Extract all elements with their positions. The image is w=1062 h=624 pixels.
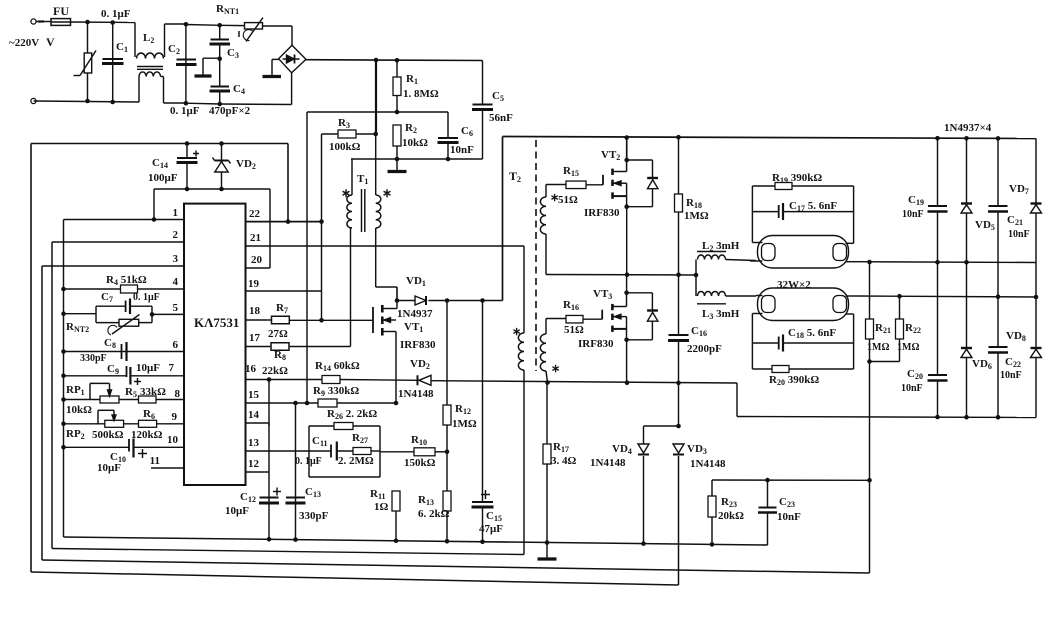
- lamp tube 1: [758, 236, 849, 269]
- pin 17: [246, 346, 272, 348]
- wire to pin1: [153, 189, 155, 220]
- resistor R1 1.8M: [396, 60, 398, 77]
- svg-text:21: 21: [250, 232, 261, 244]
- wire outer box left: [30, 144, 32, 573]
- pin 2: [52, 241, 184, 243]
- svg-text:18: 18: [249, 305, 261, 317]
- svg-text:27Ω: 27Ω: [268, 328, 288, 340]
- svg-text:IRF830: IRF830: [578, 338, 614, 350]
- svg-text:0. 1μF: 0. 1μF: [101, 8, 131, 20]
- svg-text:10: 10: [167, 434, 179, 446]
- left ground bus: [63, 220, 65, 538]
- wire C2 to RNT1 node: [186, 24, 220, 27]
- diode VT3 body diode: [627, 292, 653, 294]
- wire return drop: [736, 383, 738, 417]
- wire pin20 riser: [269, 189, 271, 268]
- svg-text:1MΩ: 1MΩ: [897, 342, 919, 353]
- wire T1 right winding bottom to VT1 drain: [375, 228, 377, 287]
- pin 18: [246, 319, 272, 321]
- svg-text:12: 12: [248, 458, 260, 470]
- svg-text:47μF: 47μF: [479, 523, 503, 535]
- inductor L3 3mH: [695, 275, 697, 296]
- svg-text:R26 2. 2kΩ: R26 2. 2kΩ: [327, 408, 377, 421]
- svg-text:1N4148: 1N4148: [690, 458, 726, 470]
- svg-text:6. 2kΩ: 6. 2kΩ: [418, 508, 450, 520]
- wire C13 riser: [295, 403, 297, 540]
- svg-text:IRF830: IRF830: [400, 339, 436, 351]
- capacitor C10 10uF: [128, 439, 130, 452]
- capacitor C1 0.1uF: [112, 23, 114, 103]
- svg-text:10nF: 10nF: [901, 383, 923, 394]
- ground midpoint C3 C4: [203, 57, 220, 59]
- resistor R8 22k: [271, 343, 289, 351]
- svg-text:V: V: [46, 35, 55, 49]
- resistor R19 390k loop: [751, 186, 753, 243]
- wire VD2 to return line: [431, 381, 737, 383]
- svg-text:10nF: 10nF: [450, 144, 474, 156]
- capacitor C7 0.1uF: [96, 305, 126, 307]
- wire outer box top: [31, 143, 288, 145]
- capacitor C9 10uF: [126, 366, 128, 377]
- svg-text:6: 6: [173, 339, 179, 351]
- node junction DC bus T1: [374, 58, 379, 63]
- svg-text:8: 8: [175, 388, 181, 400]
- diode VD4 1N4148: [643, 426, 645, 444]
- node junction lamp1 rail: [935, 260, 940, 265]
- zener diode VD2: [221, 144, 223, 161]
- capacitor C13 330pF: [286, 497, 305, 499]
- svg-text:2. 2MΩ: 2. 2MΩ: [338, 455, 374, 467]
- node junction VT3 drain: [624, 291, 629, 296]
- capacitor C22 10nF: [997, 297, 999, 347]
- diode VD7: [1035, 139, 1037, 204]
- resistor R11 1ohm: [392, 491, 400, 511]
- wire gnd rail T1: [351, 158, 483, 160]
- capacitor C14 100uF: [186, 144, 188, 158]
- resistor R22 1M: [897, 294, 902, 299]
- wire AC bottom: [34, 101, 140, 102]
- svg-text:150kΩ: 150kΩ: [404, 457, 436, 469]
- wire fuse to C1: [71, 21, 136, 24]
- diode VD3 1N4148: [673, 444, 684, 453]
- transformer T2 winding 2: [545, 319, 547, 335]
- wire VT3 source down: [626, 340, 628, 383]
- wire rectifier bottom rail: [737, 417, 1036, 418]
- resistor R15 51ohm: [566, 181, 586, 189]
- resistor R4 51k: [121, 285, 138, 293]
- node junction VT3 source: [624, 338, 629, 343]
- node junction R2 ground: [395, 157, 400, 162]
- svg-text:C17 5. 6nF: C17 5. 6nF: [789, 200, 837, 213]
- resistor R17 3.4ohm: [545, 380, 550, 385]
- wire bridge bottom: [291, 73, 293, 105]
- svg-text:R14 60kΩ: R14 60kΩ: [315, 360, 360, 373]
- wire R8 to T1: [289, 346, 351, 348]
- resistor R3 100k: [322, 133, 339, 135]
- wire R3 left vertical: [321, 134, 323, 291]
- svg-text:11: 11: [150, 455, 160, 467]
- node junction C16 return: [676, 381, 681, 386]
- svg-text:100kΩ: 100kΩ: [329, 141, 361, 153]
- svg-text:R9 330kΩ: R9 330kΩ: [313, 385, 359, 398]
- diode VD5: [966, 138, 968, 204]
- svg-text:5: 5: [173, 302, 179, 314]
- wire R21 drop to frame: [869, 362, 871, 574]
- diode VD2 1N4148 on pin16 line: [340, 379, 418, 382]
- wire C14 VD2 bottom rail: [154, 188, 270, 190]
- svg-text:1N4148: 1N4148: [590, 457, 626, 469]
- svg-text:500kΩ: 500kΩ: [92, 429, 124, 441]
- pin 19: [246, 290, 322, 292]
- svg-text:1Ω: 1Ω: [374, 501, 389, 513]
- wire feedback rail 2: [52, 549, 524, 555]
- capacitor C20 10nF: [937, 262, 939, 374]
- resistor R13 6.2k: [446, 452, 448, 491]
- wire frame rail 4: [31, 572, 679, 585]
- resistor R10 150k: [380, 451, 414, 453]
- svg-text:20kΩ: 20kΩ: [718, 510, 744, 522]
- node junction R1 R2: [395, 110, 400, 115]
- svg-text:R20 390kΩ: R20 390kΩ: [769, 374, 819, 387]
- wire lamp1 output rail: [858, 261, 1037, 264]
- resistor R18 1M: [678, 137, 680, 194]
- svg-text:2200pF: 2200pF: [687, 343, 722, 355]
- svg-text:10nF: 10nF: [1008, 229, 1030, 240]
- wire T1 left winding bottom to R8: [350, 228, 352, 347]
- svg-text:16: 16: [245, 363, 257, 375]
- svg-text:10kΩ: 10kΩ: [402, 137, 428, 149]
- node junction VT2 drain: [624, 158, 629, 163]
- resistor R7 27ohm: [272, 316, 290, 324]
- resistor R23 20k: [711, 480, 713, 496]
- node junction C3 top: [217, 23, 222, 28]
- pin 4: [64, 288, 185, 290]
- node junction pin19 gate: [321, 291, 323, 320]
- resistor R20 390k: [752, 368, 772, 370]
- resistor R14 60k: [322, 376, 340, 384]
- node AC input terminal top: [31, 19, 36, 24]
- wire pin2 left drop: [51, 242, 53, 549]
- svg-text:10nF: 10nF: [777, 511, 801, 523]
- capacitor C8 330pF: [121, 344, 123, 359]
- pin 10: [64, 446, 130, 448]
- wire block sides: [308, 426, 310, 477]
- capacitor C23 10nF: [765, 478, 770, 483]
- capacitor C11 0.1uF: [309, 450, 331, 452]
- wire pin3 left drop: [41, 266, 43, 560]
- potentiometer RP2 500k: [105, 420, 124, 427]
- node junction R1 top: [395, 58, 400, 63]
- node junction VT2 source: [624, 204, 629, 209]
- capacitor C17 5.6nF: [752, 211, 778, 213]
- resistor R6 120k: [139, 420, 157, 427]
- wire half-bridge mid rail: [546, 274, 696, 277]
- svg-text:1MΩ: 1MΩ: [452, 418, 477, 430]
- capacitor C15 47uF: [482, 301, 484, 502]
- capacitor C6 10nF: [447, 112, 449, 138]
- node AC input terminal bottom: [31, 98, 36, 103]
- capacitor C5 56nF: [482, 61, 484, 105]
- svg-text:20: 20: [251, 254, 263, 266]
- svg-text:1MΩ: 1MΩ: [684, 210, 709, 222]
- fuse FU: [51, 19, 71, 26]
- thermistor RNT1: [220, 24, 245, 26]
- svg-text:33kΩ: 33kΩ: [140, 386, 166, 398]
- svg-text:10μF: 10μF: [136, 362, 160, 374]
- varistor V: [87, 22, 89, 101]
- svg-text:1. 8MΩ: 1. 8MΩ: [403, 88, 439, 100]
- svg-text:1N4937: 1N4937: [397, 308, 433, 320]
- capacitor C16 2200pF: [678, 275, 680, 335]
- svg-text:51Ω: 51Ω: [558, 194, 578, 206]
- pin 20: [246, 267, 271, 269]
- node junction VT1 drain: [395, 298, 400, 303]
- node junction VT2 drain top rail: [624, 135, 629, 140]
- wire DC bus vertical to T1: [375, 60, 377, 134]
- inductor L2 3mH: [695, 260, 697, 276]
- wire pin16 pin14 link: [268, 380, 270, 427]
- pin 21: [246, 245, 525, 247]
- svg-text:56nF: 56nF: [489, 112, 513, 124]
- pin 15: [246, 402, 319, 404]
- wire R23 C23 top: [712, 479, 870, 481]
- wire C12 riser: [268, 423, 270, 539]
- svg-text:1: 1: [173, 207, 179, 219]
- potentiometer RP1 10k: [100, 396, 119, 403]
- svg-text:1N4937×4: 1N4937×4: [944, 122, 992, 134]
- svg-text:∗: ∗: [341, 186, 351, 200]
- wire R7 to VT1 gate: [289, 319, 373, 321]
- pin 5: [152, 313, 184, 315]
- diode VD1 1N4937: [397, 300, 415, 302]
- diode VD8: [1035, 297, 1037, 348]
- resistor R2 10k: [393, 125, 401, 146]
- pin 14: [246, 422, 270, 424]
- pin 13: [246, 450, 310, 452]
- capacitor C4 470pF: [219, 59, 221, 86]
- svg-text:∗: ∗: [551, 363, 560, 375]
- transistor VT2 IRF830 MOSFET: [602, 175, 604, 185]
- node junction varistor bottom: [85, 99, 90, 104]
- capacitor C18 5.6nF loop: [751, 314, 753, 370]
- node junction R18 top: [676, 135, 681, 140]
- svg-text:10μF: 10μF: [225, 505, 249, 517]
- bridge rectifier: [279, 45, 306, 73]
- svg-text:10nF: 10nF: [1000, 370, 1022, 381]
- wire T2 drive left vertical: [502, 137, 504, 301]
- svg-text:3: 3: [173, 253, 179, 265]
- resistor R12 1M: [446, 301, 448, 406]
- svg-text:KΛ7531: KΛ7531: [194, 315, 239, 330]
- thermistor RNT2: [96, 322, 119, 324]
- svg-text:L2 3mH: L2 3mH: [702, 240, 740, 253]
- capacitor C21 10nF: [997, 138, 999, 206]
- wire VT2 source to midpoint: [626, 207, 628, 275]
- svg-text:R4 51kΩ: R4 51kΩ: [106, 274, 147, 287]
- pin 22: [246, 221, 324, 223]
- svg-text:120kΩ: 120kΩ: [131, 429, 163, 441]
- wire divider vertical: [306, 112, 308, 403]
- pin 6: [64, 351, 185, 353]
- node junction midpoint: [625, 272, 630, 277]
- svg-text:19: 19: [248, 278, 260, 290]
- capacitor C12 10uF: [260, 497, 279, 499]
- svg-text:10nF: 10nF: [902, 209, 924, 220]
- svg-text:L3 3mH: L3 3mH: [702, 308, 740, 321]
- transformer T2 winding 1: [545, 185, 547, 198]
- svg-text:51Ω: 51Ω: [564, 324, 584, 336]
- svg-text:330pF: 330pF: [299, 510, 329, 522]
- svg-text:IRF830: IRF830: [584, 207, 620, 219]
- node junction R23 net: [867, 478, 872, 483]
- svg-text:7: 7: [169, 362, 175, 374]
- wire AC top left: [37, 21, 52, 23]
- wire VD4 VD3 tops: [644, 425, 679, 427]
- pin 3: [42, 265, 184, 267]
- pin 12: [246, 471, 270, 473]
- svg-text:10kΩ: 10kΩ: [66, 404, 92, 416]
- transistor VT3 IRF830 MOSFET: [601, 310, 603, 320]
- wire R21 R22 join: [870, 361, 900, 363]
- lamp1 left electrode: [762, 244, 776, 261]
- svg-text:10μF: 10μF: [97, 462, 121, 474]
- transistor VT1 IRF830 MOSFET: [372, 307, 374, 333]
- ground bridge: [272, 58, 279, 60]
- resistor R16 51ohm: [566, 315, 583, 323]
- wire half-bridge top rail: [503, 137, 1037, 139]
- op-amp U1 KA7531 IC body: [184, 204, 246, 485]
- svg-text:0. 1μF: 0. 1μF: [133, 292, 160, 303]
- svg-text:3. 4Ω: 3. 4Ω: [551, 455, 577, 467]
- svg-text:9: 9: [172, 411, 178, 423]
- wire feedback rail 3: [42, 560, 870, 573]
- pin 9: [64, 423, 185, 425]
- wire pin5 network left: [64, 313, 97, 315]
- pin 7: [64, 375, 127, 377]
- lamp tube 2: [758, 288, 849, 321]
- inductor L2 common-mode choke: [134, 23, 136, 58]
- node junction VD1 cathode: [445, 298, 450, 303]
- wire R1R2 junction to divider tap: [307, 111, 448, 113]
- capacitor C2 0.1uF: [185, 24, 187, 103]
- svg-text:C18 5. 6nF: C18 5. 6nF: [788, 327, 836, 340]
- capacitor C3 470pF: [219, 25, 221, 39]
- svg-text:0. 1μF: 0. 1μF: [295, 456, 322, 467]
- pin 1: [64, 219, 185, 221]
- svg-text:22kΩ: 22kΩ: [262, 365, 288, 377]
- wire VD1 to T2 drive: [447, 300, 503, 302]
- svg-text:FU: FU: [53, 4, 69, 18]
- transformer T1: [351, 159, 353, 195]
- resistor R26 2.2k: [309, 425, 334, 427]
- wire lamp2 output rail: [858, 296, 1037, 297]
- svg-text:1N4148: 1N4148: [398, 388, 434, 400]
- wire ground rail 1: [64, 537, 768, 545]
- svg-text:∗: ∗: [382, 186, 392, 200]
- resistor R5 33k: [139, 396, 157, 403]
- svg-text:0. 1μF: 0. 1μF: [170, 105, 200, 117]
- svg-text:2: 2: [173, 229, 179, 241]
- svg-text:15: 15: [248, 389, 260, 401]
- svg-text:4: 4: [173, 276, 179, 288]
- wire bridge output DC bus: [306, 59, 483, 62]
- svg-text:17: 17: [249, 332, 261, 344]
- node junction varistor top: [85, 20, 90, 25]
- svg-text:330pF: 330pF: [80, 353, 107, 364]
- svg-text:470pF×2: 470pF×2: [209, 105, 251, 117]
- resistor R27 2.2M: [337, 450, 353, 452]
- wire pin22 riser: [287, 144, 289, 222]
- ground main: [546, 543, 548, 559]
- node junction C3 C4: [217, 56, 222, 61]
- pin 16: [246, 379, 323, 381]
- resistor R21 1M: [867, 260, 872, 265]
- svg-text:100μF: 100μF: [148, 172, 178, 184]
- transformer T2 core: [535, 140, 537, 371]
- resistor R9 330k: [318, 399, 337, 407]
- svg-text:R19 390kΩ: R19 390kΩ: [772, 172, 822, 185]
- svg-text:1MΩ: 1MΩ: [867, 342, 889, 353]
- svg-text:22: 22: [249, 208, 261, 220]
- capacitor C19 10nF: [937, 138, 939, 206]
- lamp2 left electrode: [762, 296, 776, 313]
- svg-text:14: 14: [248, 409, 260, 421]
- diode VD6: [966, 262, 968, 348]
- lamp1 right electrode: [833, 244, 847, 261]
- svg-text:~220V: ~220V: [9, 37, 39, 49]
- lamp2 right electrode: [833, 296, 847, 313]
- node junction VT3 source return: [625, 380, 630, 385]
- svg-text:13: 13: [248, 437, 260, 449]
- node junction lamp2 rail: [996, 294, 1001, 299]
- pin 11: [151, 467, 184, 469]
- ground R2: [396, 159, 398, 171]
- pin 8: [64, 399, 185, 401]
- wire RNT1 to bridge: [291, 26, 293, 46]
- diode VT2 body diode: [627, 159, 653, 161]
- svg-text:∗: ∗: [512, 326, 521, 338]
